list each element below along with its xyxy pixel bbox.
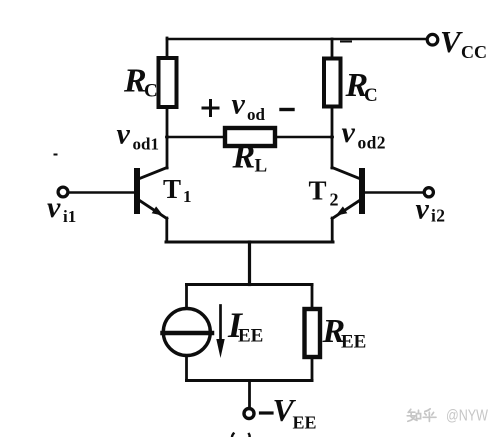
wire RL to vod2 (275, 136, 332, 139)
label minus sign of VEE (261, 411, 273, 414)
arrow IEE direction (219, 306, 222, 341)
wire current source right leg top (311, 285, 314, 310)
svg-text:V: V (440, 24, 463, 59)
wire RC2 bottom to node vod2 (331, 106, 334, 168)
svg-text:EE: EE (341, 332, 366, 353)
wire emitter bus (166, 241, 333, 244)
wire left top drop (166, 38, 169, 58)
wire current source right leg bottom (311, 357, 314, 381)
wire T2 base (365, 191, 423, 194)
svg-text:od1: od1 (133, 135, 159, 154)
svg-text:C: C (364, 85, 378, 106)
node vod1 (165, 135, 169, 139)
svg-text:L: L (255, 156, 268, 177)
label minus sign of vod (281, 108, 293, 111)
svg-text:CC: CC (461, 42, 487, 62)
svg-text:v: v (342, 116, 356, 149)
svg-text:i2: i2 (431, 206, 445, 226)
svg-text:v: v (416, 193, 430, 226)
svg-text:v: v (47, 191, 61, 224)
svg-text:C: C (144, 81, 158, 102)
caption (a) cut at bottom (232, 434, 250, 437)
wire T1 emitter drop (165, 218, 168, 242)
wire vod1 to RL (167, 136, 225, 139)
current source IEE circle (163, 309, 210, 356)
svg-text:1: 1 (183, 187, 192, 206)
terminal vi2 (424, 188, 433, 197)
resistor RC1 (159, 58, 177, 107)
wire bottom center drop (248, 381, 251, 408)
transistor T1 base bar (134, 168, 140, 214)
speck (55, 154, 57, 156)
svg-text:R: R (232, 139, 256, 176)
svg-text:od: od (247, 105, 266, 124)
wire emitter bus center drop (248, 242, 251, 285)
terminal vi1 (58, 187, 68, 197)
wire T2 emitter drop (331, 218, 334, 242)
transistor T1 emitter (140, 201, 167, 219)
svg-text:i1: i1 (63, 207, 76, 226)
svg-text:v: v (232, 88, 246, 121)
transistor T2 emitter arrow (336, 206, 348, 215)
svg-text:v: v (117, 118, 131, 151)
resistor RC2 (324, 59, 341, 107)
wire current source box bottom (187, 379, 313, 382)
svg-text:od2: od2 (358, 133, 386, 153)
terminal -VEE (244, 409, 254, 419)
transistor T2 emitter (332, 201, 359, 219)
wire RC1 bottom to node vod1 (166, 107, 169, 168)
wire T1 base (68, 191, 134, 194)
transistor T2 base bar (359, 168, 365, 214)
label plus sign of vod (203, 101, 218, 116)
current source IEE chord (163, 331, 213, 336)
svg-text:EE: EE (293, 413, 317, 433)
wire current source box top (187, 283, 313, 286)
wire current source left leg bottom (185, 356, 188, 381)
node vod2 (330, 135, 334, 139)
svg-text:@NYW: @NYW (446, 408, 489, 425)
svg-text:T: T (163, 174, 181, 204)
resistor REE (305, 309, 321, 357)
transistor T2 collector (332, 168, 360, 179)
svg-text:T: T (309, 176, 327, 206)
svg-text:2: 2 (330, 190, 339, 210)
wire top rail (167, 38, 426, 41)
wire right top drop (331, 39, 334, 59)
transistor T1 emitter arrow (152, 206, 164, 215)
svg-text:EE: EE (238, 326, 263, 347)
resistor RL (225, 128, 275, 146)
terminal VCC (427, 34, 438, 45)
watermark zhihu (407, 409, 436, 422)
junction top right branch (341, 41, 351, 43)
transistor T1 collector (140, 168, 168, 179)
wire current source left leg top (185, 285, 188, 310)
